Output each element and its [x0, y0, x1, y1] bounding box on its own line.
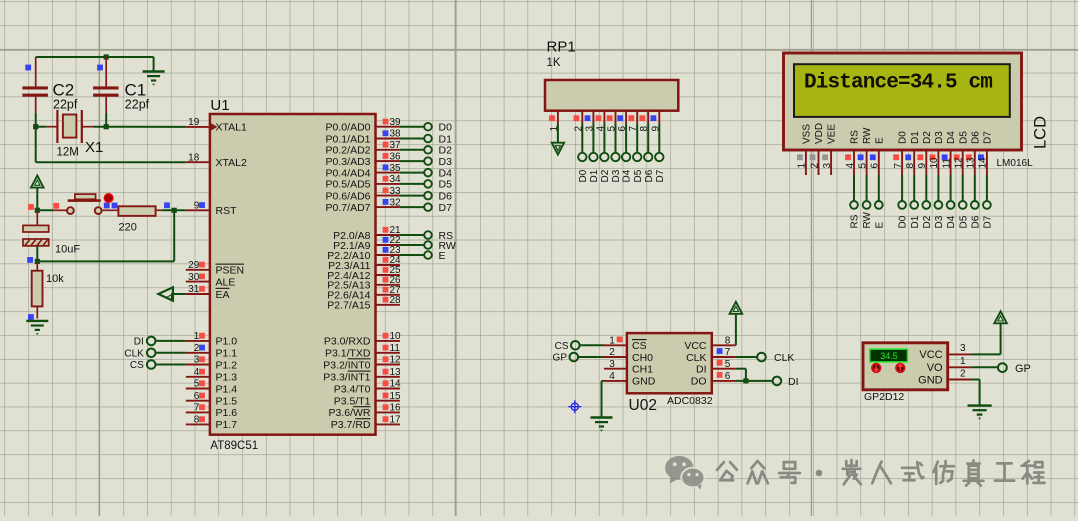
svg-text:2: 2	[960, 368, 966, 379]
svg-text:D7: D7	[983, 131, 994, 144]
svg-text:P1.4: P1.4	[216, 383, 238, 395]
svg-text:3: 3	[822, 163, 833, 169]
svg-text:D2: D2	[600, 169, 611, 182]
svg-text:17: 17	[390, 415, 402, 426]
svg-text:E: E	[439, 250, 446, 262]
svg-text:P2.7/A15: P2.7/A15	[327, 300, 370, 312]
svg-text:6: 6	[194, 391, 200, 402]
svg-text:D7: D7	[655, 169, 666, 182]
svg-text:13: 13	[966, 157, 977, 169]
svg-text:15: 15	[390, 391, 402, 402]
svg-text:CS: CS	[555, 341, 569, 352]
svg-text:LM016L: LM016L	[997, 158, 1034, 169]
svg-text:29: 29	[188, 260, 200, 271]
svg-text:D7: D7	[439, 202, 453, 214]
svg-text:P0.3/AD3: P0.3/AD3	[326, 156, 371, 168]
svg-text:2: 2	[809, 163, 820, 169]
svg-text:28: 28	[390, 295, 402, 306]
svg-text:37: 37	[390, 140, 402, 151]
svg-text:P1.7: P1.7	[216, 419, 238, 431]
svg-text:P1.0: P1.0	[216, 336, 238, 348]
svg-text:5: 5	[725, 359, 731, 370]
svg-text:D5: D5	[439, 179, 453, 191]
svg-text:D3: D3	[934, 131, 945, 144]
svg-text:32: 32	[390, 197, 402, 208]
svg-text:3: 3	[609, 359, 615, 370]
svg-text:7: 7	[893, 163, 904, 169]
svg-text:36: 36	[390, 151, 402, 162]
svg-text:XTAL2: XTAL2	[216, 157, 247, 169]
svg-text:2: 2	[609, 347, 615, 358]
svg-text:D4: D4	[946, 131, 957, 144]
svg-text:10k: 10k	[46, 273, 64, 285]
svg-text:P0.7/AD7: P0.7/AD7	[326, 202, 371, 214]
svg-text:30: 30	[188, 272, 200, 283]
svg-text:P1.1: P1.1	[216, 348, 238, 360]
svg-text:10uF: 10uF	[55, 243, 80, 255]
svg-text:RW: RW	[862, 127, 873, 144]
svg-text:RS: RS	[850, 214, 861, 228]
svg-text:P3.4/T0: P3.4/T0	[334, 383, 371, 395]
svg-text:7: 7	[725, 347, 731, 358]
svg-text:ADC0832: ADC0832	[667, 395, 713, 407]
svg-text:12: 12	[954, 157, 965, 169]
svg-text:U1: U1	[210, 97, 229, 114]
svg-text:D5: D5	[958, 215, 969, 228]
svg-text:D6: D6	[970, 215, 981, 228]
svg-text:DI: DI	[696, 364, 707, 376]
svg-text:4: 4	[609, 371, 615, 382]
svg-text:P1.3: P1.3	[216, 372, 238, 384]
svg-text:35: 35	[390, 163, 402, 174]
svg-text:2: 2	[194, 343, 200, 354]
svg-text:DO: DO	[691, 376, 707, 388]
svg-text:D0: D0	[898, 215, 909, 228]
svg-text:12M: 12M	[57, 147, 79, 159]
svg-text:XTAL1: XTAL1	[216, 122, 247, 134]
svg-text:GND: GND	[632, 376, 656, 388]
svg-text:DI: DI	[788, 376, 799, 388]
svg-text:D2: D2	[439, 145, 453, 157]
svg-text:14: 14	[978, 157, 989, 169]
svg-text:1: 1	[194, 331, 200, 342]
svg-text:D1: D1	[910, 215, 921, 228]
svg-text:D7: D7	[983, 215, 994, 228]
svg-text:D3: D3	[934, 215, 945, 228]
svg-text:8: 8	[905, 163, 916, 169]
svg-text:LCD: LCD	[1032, 116, 1050, 149]
svg-text:EA: EA	[216, 289, 230, 301]
svg-text:18: 18	[188, 152, 200, 163]
svg-text:D3: D3	[439, 156, 453, 168]
svg-text:D4: D4	[946, 215, 957, 228]
svg-text:GP: GP	[1015, 363, 1031, 375]
svg-text:14: 14	[390, 379, 402, 390]
svg-text:D0: D0	[898, 131, 909, 144]
svg-text:D1: D1	[589, 169, 600, 182]
svg-text:D5: D5	[633, 169, 644, 182]
svg-text:3: 3	[194, 355, 200, 366]
svg-text:GP: GP	[553, 353, 568, 364]
svg-text:X1: X1	[85, 139, 103, 156]
svg-text:CLK: CLK	[774, 352, 794, 364]
svg-text:D3: D3	[611, 169, 622, 182]
svg-text:34.5: 34.5	[880, 351, 898, 361]
svg-text:P0.0/AD0: P0.0/AD0	[326, 122, 371, 134]
svg-text:4: 4	[194, 367, 200, 378]
svg-text:1K: 1K	[547, 57, 561, 69]
svg-text:22pf: 22pf	[125, 98, 150, 112]
svg-text:P3.7/RD: P3.7/RD	[331, 419, 371, 431]
svg-text:E: E	[874, 222, 885, 229]
svg-text:P1.2: P1.2	[216, 359, 238, 371]
svg-text:D1: D1	[439, 133, 453, 145]
svg-text:16: 16	[390, 403, 402, 414]
svg-text:11: 11	[941, 158, 952, 169]
svg-text:10: 10	[390, 331, 402, 342]
svg-text:9: 9	[917, 163, 928, 169]
svg-text:D6: D6	[439, 190, 453, 202]
svg-text:38: 38	[390, 129, 402, 140]
svg-text:VSS: VSS	[802, 124, 813, 144]
svg-text:D0: D0	[578, 169, 589, 182]
svg-text:33: 33	[390, 186, 402, 197]
svg-text:P0.2/AD2: P0.2/AD2	[326, 145, 371, 157]
svg-text:VCC: VCC	[919, 349, 942, 361]
svg-text:6: 6	[725, 371, 731, 382]
svg-text:DI: DI	[134, 336, 144, 347]
svg-text:P3.3/INT1: P3.3/INT1	[323, 372, 370, 384]
svg-text:RW: RW	[862, 211, 873, 228]
svg-text:GP2D12: GP2D12	[864, 391, 904, 403]
svg-text:PSEN: PSEN	[216, 265, 245, 277]
svg-text:P0.1/AD1: P0.1/AD1	[326, 133, 371, 145]
svg-text:P1.6: P1.6	[216, 407, 238, 419]
svg-text:39: 39	[390, 117, 402, 128]
svg-text:P0.4/AD4: P0.4/AD4	[326, 167, 371, 179]
svg-text:P3.2/INT0: P3.2/INT0	[323, 359, 370, 371]
svg-text:5: 5	[194, 379, 200, 390]
svg-text:CH1: CH1	[632, 364, 653, 376]
svg-text:CLK: CLK	[124, 348, 144, 359]
svg-text:D6: D6	[970, 131, 981, 144]
svg-text:D5: D5	[958, 131, 969, 144]
svg-text:VDD: VDD	[814, 123, 825, 144]
svg-text:D6: D6	[644, 169, 655, 182]
svg-text:220: 220	[119, 222, 137, 234]
svg-text:6: 6	[870, 163, 881, 169]
svg-text:Distance=34.5 cm: Distance=34.5 cm	[804, 72, 992, 95]
svg-text:E: E	[874, 137, 885, 144]
svg-text:P3.6/WR: P3.6/WR	[328, 407, 370, 419]
svg-text:RST: RST	[216, 205, 238, 217]
svg-text:U02: U02	[629, 397, 657, 414]
svg-text:CLK: CLK	[686, 352, 706, 364]
svg-text:34: 34	[390, 174, 402, 185]
svg-text:CS: CS	[632, 340, 647, 352]
svg-text:P0.6/AD6: P0.6/AD6	[326, 190, 371, 202]
svg-text:P1.5: P1.5	[216, 396, 238, 408]
svg-text:8: 8	[194, 415, 200, 426]
svg-text:P3.0/RXD: P3.0/RXD	[324, 336, 371, 348]
svg-text:19: 19	[188, 117, 200, 128]
svg-text:11: 11	[390, 343, 401, 354]
svg-text:1: 1	[797, 163, 808, 169]
svg-text:ALE: ALE	[216, 276, 236, 288]
svg-text:CH0: CH0	[632, 352, 653, 364]
svg-text:RP1: RP1	[547, 39, 576, 56]
svg-text:P3.5/T1: P3.5/T1	[334, 396, 371, 408]
svg-text:5: 5	[857, 163, 868, 169]
svg-text:D2: D2	[922, 215, 933, 228]
svg-text:3: 3	[960, 343, 966, 354]
svg-text:P3.1/TXD: P3.1/TXD	[325, 348, 371, 360]
svg-text:AT89C51: AT89C51	[210, 440, 258, 452]
svg-text:D4: D4	[622, 169, 633, 182]
svg-text:P0.5/AD5: P0.5/AD5	[326, 179, 371, 191]
svg-text:VO: VO	[927, 362, 943, 374]
svg-text:22pf: 22pf	[53, 98, 78, 112]
svg-text:D0: D0	[439, 122, 453, 134]
svg-text:GND: GND	[918, 374, 943, 386]
svg-text:4: 4	[845, 163, 856, 169]
svg-text:VCC: VCC	[684, 340, 707, 352]
svg-text:1: 1	[960, 356, 966, 367]
svg-text:CS: CS	[130, 360, 144, 371]
svg-text:13: 13	[390, 367, 402, 378]
svg-text:VEE: VEE	[827, 124, 838, 144]
svg-text:1: 1	[609, 336, 615, 347]
svg-text:RS: RS	[850, 130, 861, 144]
svg-text:7: 7	[194, 403, 200, 414]
svg-text:10: 10	[929, 157, 940, 169]
svg-text:8: 8	[725, 336, 731, 347]
svg-text:9: 9	[194, 201, 200, 212]
svg-text:D4: D4	[439, 167, 453, 179]
svg-text:12: 12	[390, 355, 402, 366]
svg-text:D2: D2	[922, 131, 933, 144]
svg-text:31: 31	[188, 284, 200, 295]
svg-text:D1: D1	[910, 131, 921, 144]
